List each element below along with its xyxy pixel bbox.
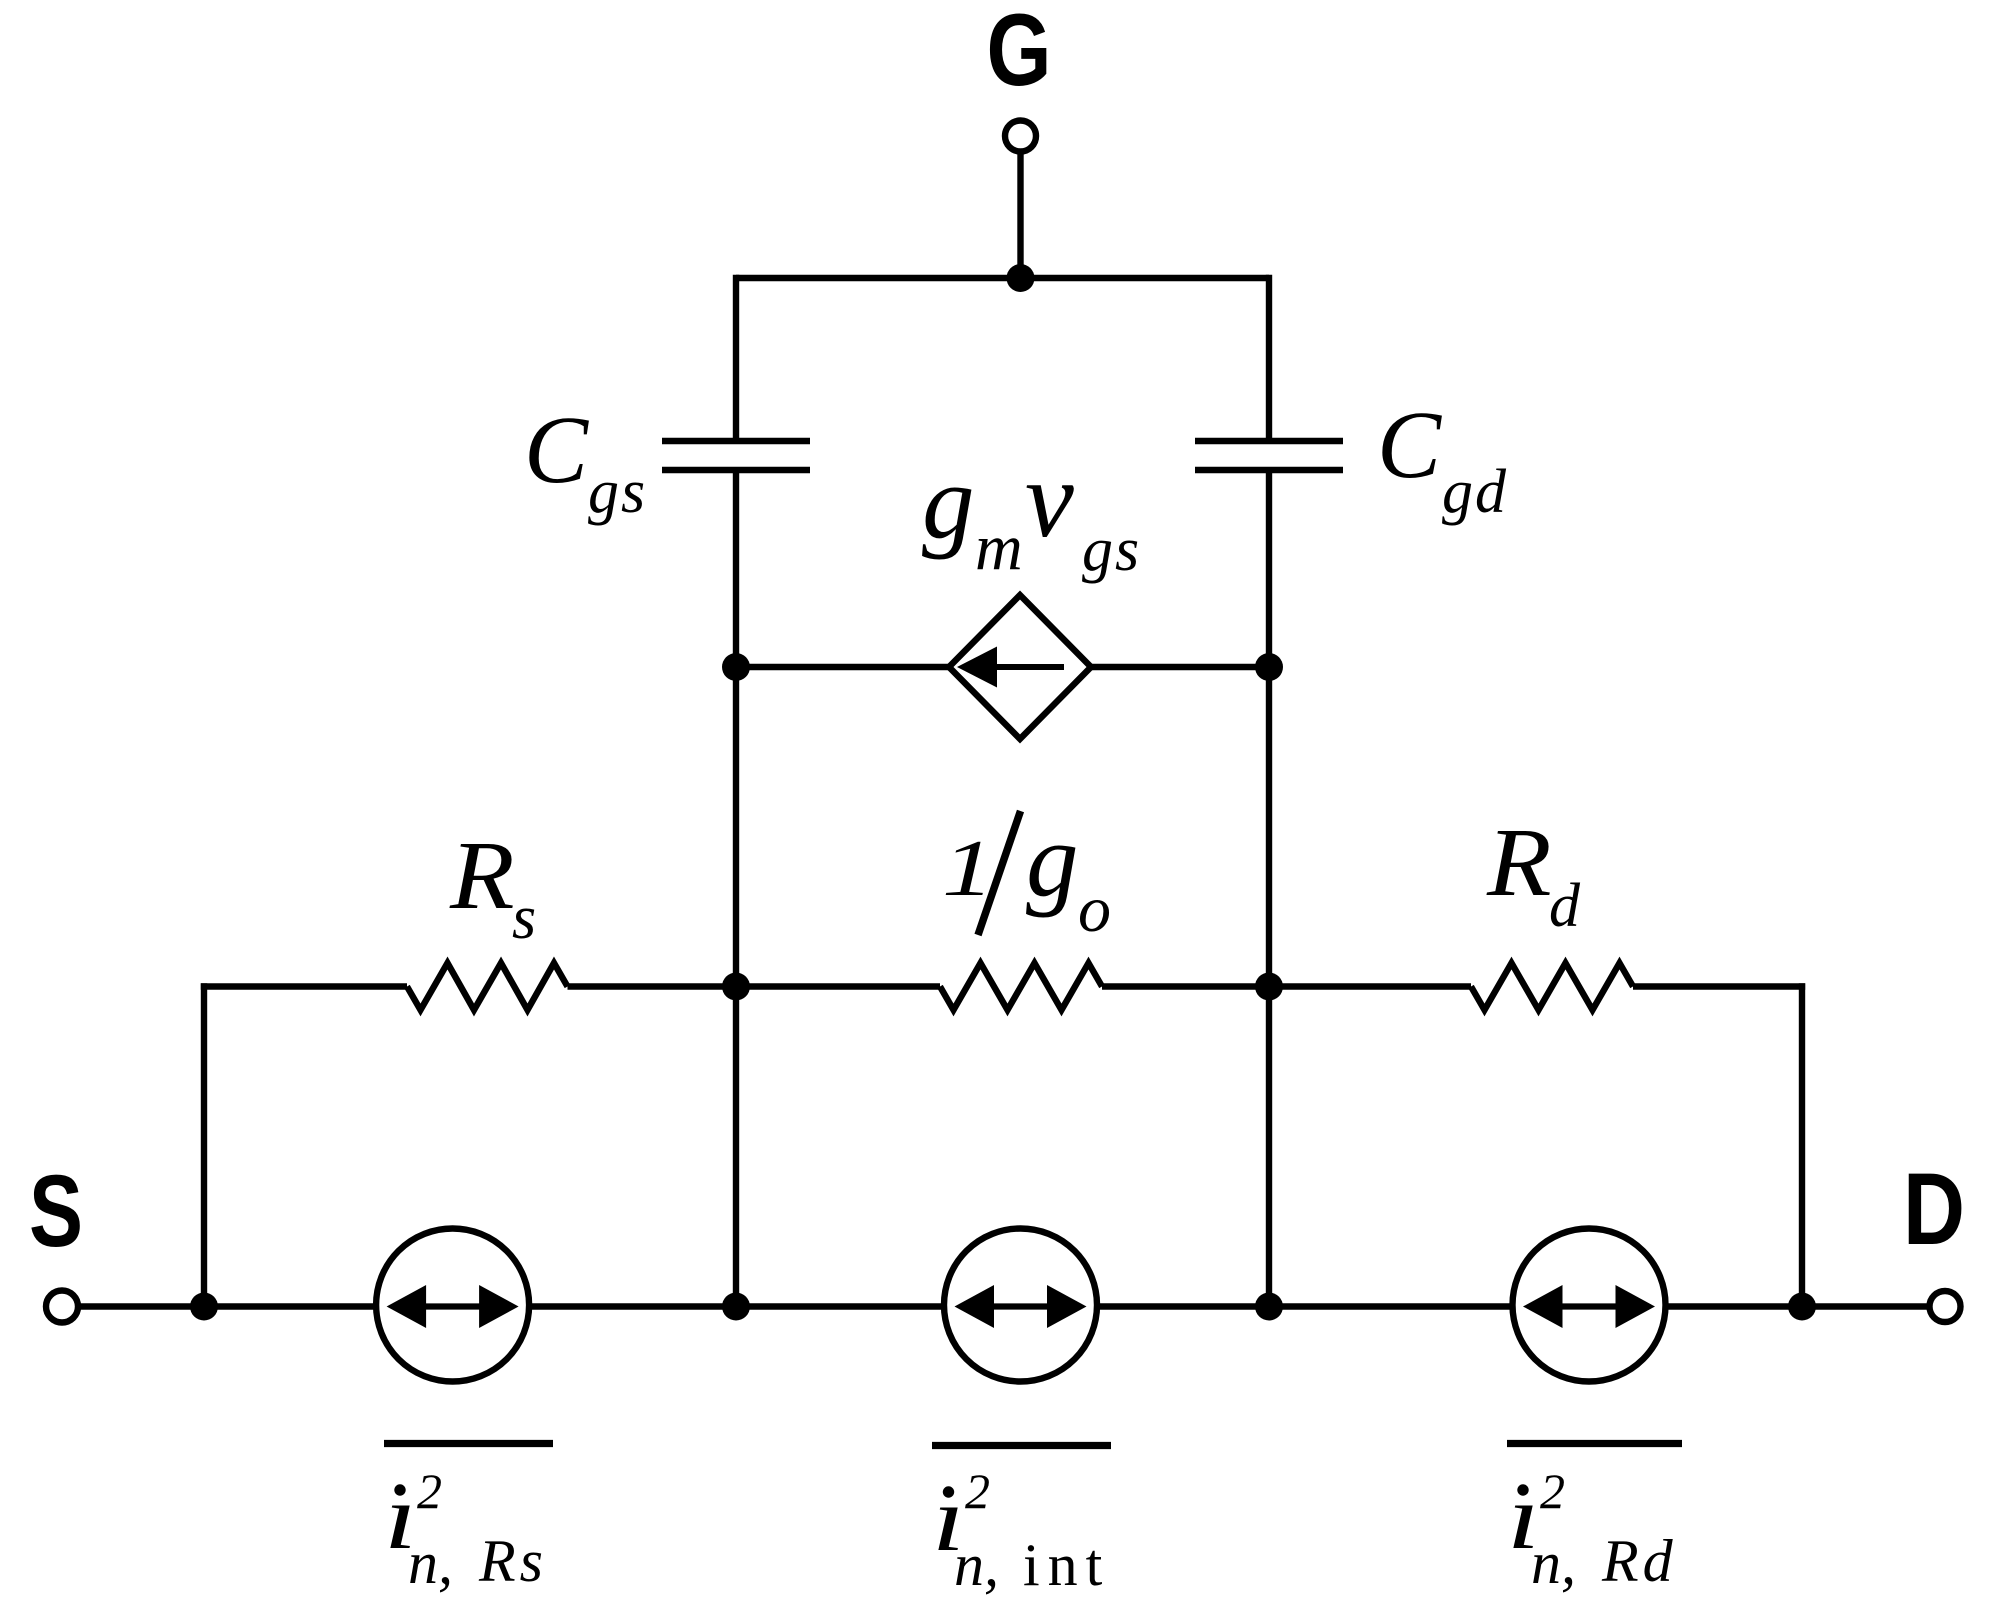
dependent current source gm*vgs diamond [949,595,1091,739]
svg-text:n,: n, [954,1532,999,1598]
svg-text:n,: n, [408,1530,453,1596]
capacitor Cgd [1195,441,1343,470]
resistor Rd [1471,963,1633,1010]
node S terminal circle [46,1291,78,1323]
resistor Rs [407,963,568,1010]
noise label i2n,int [932,1446,1111,1599]
svg-text:s: s [512,884,536,952]
wire left outer vertical [201,983,207,1306]
capacitor Cgd label [1377,391,1508,526]
wire mid rail seg1 [201,983,407,989]
svg-text:G: G [987,0,1052,107]
wire left branch upper [733,275,739,438]
svg-text:g: g [1026,801,1079,918]
wire mid rail seg2 [568,983,941,989]
noise label i2n,Rs [384,1444,553,1597]
node G junction [1007,264,1035,292]
wire right branch upper [1266,275,1272,438]
arrow i2n,int [955,1285,1087,1328]
wire dep-source row left [736,664,949,670]
node left dep junction [722,653,750,681]
arrow i2n,Rd [1523,1285,1655,1328]
wire left branch mid [733,667,739,987]
noise source i2n,int circle [944,1229,1097,1382]
svg-text:Rs: Rs [478,1528,547,1594]
svg-text:gd: gd [1442,458,1508,526]
svg-text:int: int [1023,1532,1110,1598]
node right bottom junction [1255,1293,1283,1321]
capacitor Cgs label [524,396,647,526]
wire bottom rail seg1 [78,1303,376,1309]
node S junction [190,1293,218,1321]
wire bottom rail seg3 [1097,1303,1513,1309]
svg-text:2: 2 [1540,1463,1565,1519]
node left bottom junction [722,1293,750,1321]
svg-text:2: 2 [965,1463,990,1519]
svg-text:g: g [922,443,975,560]
svg-text:D: D [1903,1152,1965,1266]
wire mid rail seg3 [1102,983,1471,989]
svg-text:2: 2 [417,1463,442,1519]
svg-text:m: m [975,511,1023,584]
capacitor Cgs [662,441,810,470]
resistor 1/go label [942,801,1111,946]
svg-text:v: v [1025,438,1074,560]
node G terminal circle [1005,121,1036,152]
dep source gm vgs label [922,438,1141,584]
wire bottom rail seg4 [1666,1303,1930,1309]
svg-text:S: S [29,1154,83,1268]
wire bottom rail seg2 [529,1303,944,1309]
node right mid junction [1255,973,1283,1001]
svg-text:R: R [449,822,515,929]
svg-text:d: d [1549,872,1581,940]
node D junction [1788,1293,1816,1321]
noise source i2n,Rs circle [376,1229,529,1382]
wire mid rail seg4 [1633,983,1805,989]
svg-text:n,: n, [1531,1530,1576,1596]
wire top rail [736,275,1269,281]
wire G lead [1017,152,1023,279]
wire right outer vertical [1799,983,1805,1306]
arrow i2n,Rs [387,1285,519,1328]
svg-text:R: R [1486,809,1552,916]
wire left branch lower [733,987,739,1307]
svg-text:gs: gs [588,458,647,526]
node D terminal circle [1930,1291,1961,1322]
svg-text:C: C [524,396,589,503]
dep source arrow [957,647,1064,688]
node right dep junction [1255,653,1283,681]
svg-text:o: o [1078,873,1111,946]
wire dep-source row right [1091,664,1269,670]
svg-text:gs: gs [1082,516,1141,584]
resistor 1/go [940,963,1102,1010]
wire right branch below Cgd [1266,473,1272,667]
wire left branch below Cgs [733,473,739,667]
noise source i2n,Rd circle [1513,1229,1666,1382]
resistor Rs label [449,822,536,952]
noise label i2n,Rd [1507,1444,1682,1597]
noise arrows [387,1285,1655,1328]
node left mid junction [722,973,750,1001]
svg-text:Rd: Rd [1601,1528,1677,1594]
resistor Rd label [1486,809,1581,940]
svg-text:C: C [1377,391,1442,498]
wire right branch lower [1266,987,1272,1307]
wire right branch mid [1266,667,1272,987]
